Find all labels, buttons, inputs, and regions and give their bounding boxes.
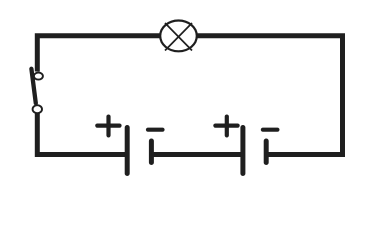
lamp L1 bulb (circle with cross) (160, 21, 197, 52)
switch S1 lower terminal node (33, 105, 42, 113)
wire: battery B2 negative plate to bottom-right corner up to top-right corner to lamp right terminal (196, 36, 343, 155)
wire: switch lower terminal to bottom-left corner to battery B1 positive plate (37, 113, 126, 154)
wire: battery B1 negative plate to battery B2 positive plate (151, 152, 241, 157)
battery B1 negative plate (short) (149, 141, 154, 163)
battery B2 positive plate (long) (240, 128, 245, 174)
switch S1 upper terminal node (34, 73, 43, 80)
switch S1 lever (open) (31, 69, 35, 103)
battery B1 minus label (148, 128, 163, 132)
wire: lamp left terminal to top-left corner down to switch upper terminal (37, 36, 161, 72)
battery B2 minus label (263, 128, 278, 132)
battery B1 plus label (97, 117, 119, 136)
battery B2 plus label (215, 117, 237, 136)
battery B2 negative plate (short) (264, 141, 269, 163)
battery B1 positive plate (long) (125, 128, 130, 174)
